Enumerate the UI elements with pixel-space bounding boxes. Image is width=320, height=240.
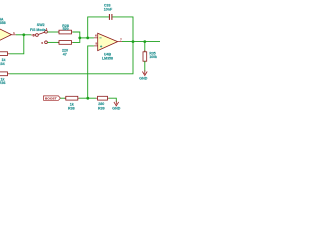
- svg-text:520: 520: [63, 27, 69, 31]
- wire SW2 lower throw to R29: [47, 41, 59, 43]
- svg-text:R36: R36: [0, 81, 6, 85]
- node feedback tap junction: [86, 37, 89, 40]
- wire R35 to ground: [144, 61, 146, 71]
- wire output column down to bottom rail: [10, 42, 134, 74]
- svg-text:BOOST: BOOST: [45, 96, 57, 100]
- node bias junction: [86, 97, 89, 100]
- svg-text:100k: 100k: [149, 55, 157, 59]
- svg-text:SW2: SW2: [37, 23, 45, 27]
- svg-text:C33: C33: [104, 3, 111, 7]
- resistor R36: [0, 72, 10, 76]
- wire merge node to U4B inverting input: [80, 37, 94, 39]
- wire BOOST to R38: [60, 97, 65, 99]
- wire R29 to merge node: [73, 38, 80, 43]
- svg-text:GND: GND: [139, 77, 147, 81]
- node R35 junction: [143, 40, 146, 43]
- svg-text:R39: R39: [98, 106, 105, 110]
- node U4A output junction: [22, 33, 25, 36]
- op-amp U4B: [94, 33, 122, 50]
- wire U4B output to right edge: [122, 41, 160, 43]
- node output-feedback junction: [132, 40, 135, 43]
- resistor R38: [65, 96, 79, 100]
- svg-text:R34: R34: [0, 62, 5, 66]
- svg-text:F/S Mode: F/S Mode: [30, 28, 46, 32]
- wire SW2 upper throw to R28: [47, 31, 59, 33]
- svg-text:LM358: LM358: [0, 21, 6, 25]
- svg-text:10nF: 10nF: [104, 8, 113, 12]
- resistor R28: [58, 30, 73, 34]
- resistor R29: [58, 41, 73, 45]
- wire C33 to output column: [112, 17, 133, 42]
- capacitor C33: [109, 14, 112, 20]
- switch SW2: [31, 30, 47, 43]
- global label BOOST: [44, 96, 61, 101]
- resistor R35: [143, 50, 147, 63]
- node merge junction: [78, 37, 81, 40]
- op-amp U4A: [0, 25, 16, 45]
- resistor R34: [0, 52, 10, 56]
- svg-text:LM358: LM358: [102, 56, 113, 60]
- wire junction to R35: [144, 42, 146, 52]
- svg-text:3: 3: [33, 34, 35, 38]
- wire R39 to ground: [109, 98, 116, 102]
- svg-text:GND: GND: [112, 106, 120, 110]
- wire U4B noninverting input down: [88, 46, 94, 98]
- svg-text:R38: R38: [68, 106, 75, 110]
- wire R38 to bias junction: [79, 97, 96, 99]
- wire U4A output: [16, 34, 31, 36]
- wire feedback up to C33: [88, 17, 109, 38]
- ground symbol bottom: [114, 101, 119, 106]
- svg-text:47: 47: [63, 53, 67, 57]
- ground symbol right: [142, 70, 147, 75]
- wire feedback down to R34: [10, 35, 24, 54]
- resistor R39: [96, 96, 109, 100]
- wire R28 to merge node: [73, 32, 80, 38]
